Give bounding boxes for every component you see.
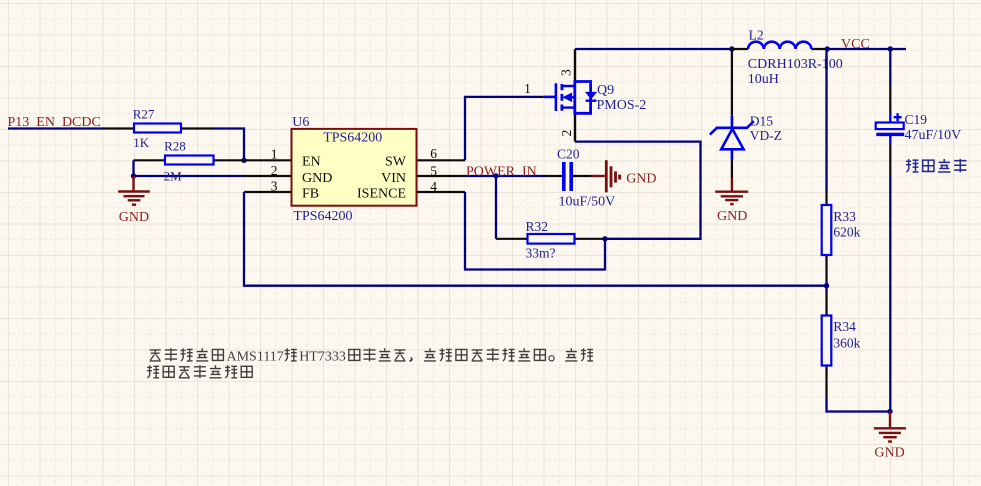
svg-text:GND: GND bbox=[874, 446, 904, 461]
svg-text:GND: GND bbox=[302, 171, 332, 186]
svg-text:6: 6 bbox=[430, 146, 437, 161]
svg-text:VCC: VCC bbox=[841, 37, 870, 52]
svg-text:R28: R28 bbox=[164, 139, 186, 154]
wire pin3 FB stub bbox=[244, 191, 292, 193]
ground symbol bottom right bbox=[874, 412, 906, 442]
wire R34 into body bbox=[825, 291, 827, 316]
transistor Q9 gate bar bbox=[555, 83, 558, 111]
svg-text:Q9: Q9 bbox=[597, 83, 614, 98]
resistor R27 bbox=[134, 124, 181, 133]
transistor Q9 drain source connectors bbox=[562, 86, 575, 108]
wire R32 right lead bbox=[575, 238, 606, 240]
wire R32 to Q9 source loop bbox=[575, 142, 701, 239]
transistor Q9 body diode bbox=[586, 92, 596, 98]
node R33 tap bbox=[825, 46, 830, 51]
note bottom remark line2 hanzi bbox=[147, 365, 252, 378]
transistor Q9 gate lead blue bbox=[543, 96, 555, 99]
svg-text:EN: EN bbox=[302, 154, 321, 169]
svg-text:ISENCE: ISENCE bbox=[357, 187, 406, 202]
svg-text:47uF/10V: 47uF/10V bbox=[905, 128, 962, 143]
transistor Q9 channel segments bbox=[561, 84, 564, 111]
wire VIN to C20 bbox=[465, 175, 546, 177]
svg-text:CDRH103R-100: CDRH103R-100 bbox=[748, 57, 843, 72]
note bottom remark line1 hanzi run2 bbox=[349, 348, 406, 361]
transistor Q9 body frame bbox=[574, 82, 591, 114]
svg-text:GND: GND bbox=[119, 210, 149, 225]
wire C19 down to gnd row bbox=[889, 176, 891, 412]
capacitor C19 plus sign bbox=[894, 113, 902, 121]
wire R33 top lead bbox=[825, 49, 827, 190]
svg-text:TPS64200: TPS64200 bbox=[323, 131, 382, 146]
wire Q9 source pin down bbox=[574, 113, 576, 141]
wire FB feedback run bbox=[244, 192, 827, 286]
svg-text:VIN: VIN bbox=[381, 171, 406, 186]
wire R33 into body bbox=[825, 190, 827, 205]
note bottom remark comma bbox=[409, 358, 412, 362]
wire R28 down to gnd node bbox=[132, 160, 134, 176]
wire pin2 GND stub bbox=[244, 175, 292, 177]
wire POWER IN down to R32 bbox=[495, 176, 497, 239]
wire pin6 SW stub bbox=[418, 159, 466, 161]
capacitor C19 top plate bbox=[876, 123, 904, 130]
svg-text:1: 1 bbox=[271, 147, 278, 162]
wire pin4 ISENCE stub bbox=[418, 191, 466, 193]
wire R34 top lead bbox=[825, 286, 827, 291]
svg-text:U6: U6 bbox=[292, 115, 309, 130]
svg-text:P13 EN DCDC: P13 EN DCDC bbox=[8, 115, 101, 130]
node POWER IN junction bbox=[493, 173, 498, 178]
wire C19 pin upper bbox=[889, 113, 891, 123]
wire P13 net horizontal bbox=[8, 127, 104, 129]
node C19 tap bbox=[888, 46, 893, 51]
wire L2 left lead bbox=[732, 48, 748, 50]
wire C19 black lead bbox=[889, 144, 891, 177]
wire R27 right lead bbox=[181, 127, 214, 129]
svg-text:L2: L2 bbox=[749, 27, 764, 42]
wire switch-node top rail bbox=[575, 48, 733, 50]
inductor L2 bbox=[748, 42, 811, 49]
wire R33 to FB node bbox=[825, 281, 827, 286]
svg-text:2: 2 bbox=[271, 163, 278, 178]
note bottom remark line1 hanzi run1 bbox=[150, 348, 224, 361]
svg-text:D15: D15 bbox=[750, 114, 773, 129]
wire R33 over text bbox=[825, 56, 827, 70]
capacitor C19 bottom plate bbox=[876, 133, 904, 136]
svg-text:33m?: 33m? bbox=[526, 246, 556, 261]
svg-text:2: 2 bbox=[559, 130, 574, 137]
svg-text:3: 3 bbox=[271, 179, 278, 194]
svg-text:R32: R32 bbox=[526, 219, 549, 234]
svg-text:5: 5 bbox=[430, 164, 437, 179]
svg-text:4: 4 bbox=[430, 179, 437, 194]
wire ISENCE sense loop bbox=[465, 192, 605, 270]
svg-text:360k: 360k bbox=[833, 335, 860, 350]
svg-text:AMS1117: AMS1117 bbox=[227, 349, 284, 364]
wire R32 left lead bbox=[496, 238, 528, 240]
note bottom remark line1 hanzi run3 bbox=[424, 348, 545, 361]
node D15 tap bbox=[729, 46, 734, 51]
svg-text:1: 1 bbox=[524, 81, 531, 96]
svg-text:1K: 1K bbox=[133, 135, 150, 150]
resistor R28 bbox=[165, 156, 214, 165]
ground symbol C20 sideways bbox=[591, 160, 620, 192]
svg-text:POWER IN: POWER IN bbox=[466, 164, 537, 179]
node FB divider junction bbox=[824, 283, 829, 288]
node R32 right junction bbox=[602, 236, 607, 241]
svg-text:2M: 2M bbox=[164, 168, 183, 183]
svg-text:VD-Z: VD-Z bbox=[750, 128, 782, 143]
wire Q9 gate lead bbox=[540, 96, 543, 98]
svg-text:3: 3 bbox=[559, 69, 574, 76]
note tantalum capacitor hanzi bbox=[906, 159, 966, 172]
svg-text:C19: C19 bbox=[905, 112, 928, 127]
svg-text:GND: GND bbox=[626, 171, 656, 186]
svg-text:HT7333: HT7333 bbox=[299, 349, 346, 364]
wire C19 top lead bbox=[889, 49, 891, 85]
svg-text:620k: 620k bbox=[833, 225, 860, 240]
wire SW up to gate row bbox=[465, 97, 540, 160]
node GND junction left bbox=[131, 173, 136, 178]
note bottom remark line1 hanzi run4 bbox=[565, 348, 593, 361]
resistor R33 bbox=[822, 205, 832, 255]
svg-text:R27: R27 bbox=[133, 106, 155, 121]
svg-text:GND: GND bbox=[717, 209, 747, 224]
svg-text:C20: C20 bbox=[557, 147, 580, 162]
wire pin1 EN stub bbox=[244, 159, 292, 161]
wire R28 right lead bbox=[214, 159, 245, 161]
ground symbol D15 bbox=[715, 178, 748, 204]
wire R27 to EN corner bbox=[214, 129, 245, 161]
diode D15 zener bbox=[731, 115, 734, 128]
wire R27 left lead bbox=[104, 127, 135, 129]
wire R28 left lead bbox=[134, 159, 166, 161]
capacitor C20 plates bbox=[564, 162, 571, 191]
svg-text:R34: R34 bbox=[833, 319, 856, 334]
wire D15 anode lead bbox=[731, 160, 733, 178]
svg-text:10uH: 10uH bbox=[748, 72, 779, 87]
svg-text:SW: SW bbox=[385, 154, 407, 169]
wire pin5 VIN stub bbox=[418, 175, 466, 177]
node bottom gnd junction bbox=[887, 409, 892, 414]
wire R33 bottom lead bbox=[825, 255, 827, 281]
svg-text:R33: R33 bbox=[833, 209, 856, 224]
svg-text:PMOS-2: PMOS-2 bbox=[597, 98, 647, 113]
resistor R34 bbox=[822, 316, 832, 366]
op-amp U6 body bbox=[292, 129, 417, 206]
svg-text:TPS64200: TPS64200 bbox=[293, 209, 352, 224]
wire R34 bottom lead bbox=[825, 366, 827, 398]
wire VCC rail bbox=[827, 48, 906, 50]
wire D15 cathode lead bbox=[731, 49, 733, 115]
svg-text:10uF/50V: 10uF/50V bbox=[559, 194, 616, 209]
node EN junction bbox=[241, 158, 246, 163]
resistor R32 bbox=[528, 234, 575, 244]
wire C19 pin lower bbox=[889, 136, 891, 144]
ground symbol left bbox=[118, 176, 150, 205]
svg-text:FB: FB bbox=[302, 187, 319, 202]
wire C20 right lead bbox=[573, 175, 591, 177]
transistor Q9 substrate arrow bbox=[563, 93, 571, 101]
wire C20 left lead bbox=[546, 175, 562, 177]
wire L2 right lead bbox=[811, 48, 827, 50]
wire gnd row to pin2 bbox=[134, 175, 245, 177]
wire Q9 drain pin up bbox=[574, 49, 576, 81]
note bottom remark period bbox=[549, 356, 554, 361]
note bottom remark hanzi he bbox=[285, 348, 297, 361]
wire R34 to bottom gnd row bbox=[827, 397, 891, 412]
